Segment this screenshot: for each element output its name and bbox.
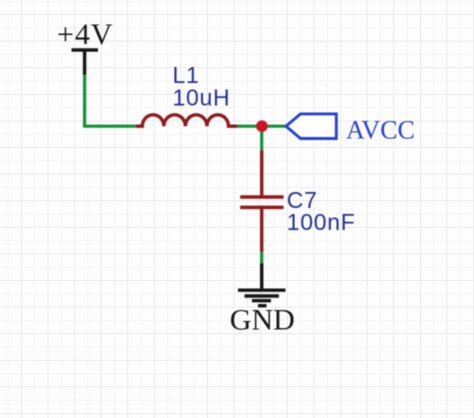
capacitor C7 bottom pin <box>260 209 263 252</box>
wire horizontal to L1 <box>83 125 136 128</box>
svg-text:+4V: +4V <box>57 18 113 51</box>
capacitor C7 top pin <box>260 150 263 195</box>
net port AVCC <box>286 114 336 139</box>
junction node dot <box>256 120 268 132</box>
power +4V bar symbol <box>72 50 99 76</box>
wire from C7 to ground <box>260 252 263 264</box>
svg-text:10uH: 10uH <box>173 84 231 110</box>
svg-text:GND: GND <box>230 303 295 336</box>
wire from node to AVCC tag <box>262 125 287 128</box>
inductor L1 <box>136 115 237 126</box>
wire vertical from +4V <box>83 75 86 127</box>
ground symbol <box>238 264 286 306</box>
capacitor C7 plates <box>240 197 283 207</box>
svg-text:AVCC: AVCC <box>346 115 415 144</box>
svg-text:100nF: 100nF <box>287 209 356 235</box>
wire from L1 to node <box>237 125 262 128</box>
wire from node down to C7 <box>260 126 263 150</box>
